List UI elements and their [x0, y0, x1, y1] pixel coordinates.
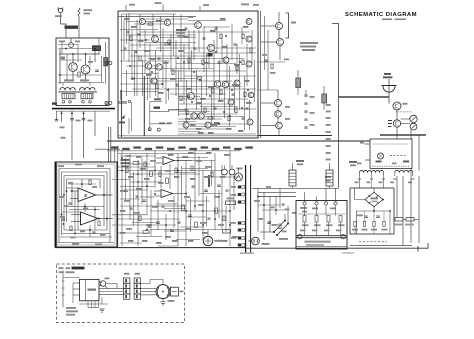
wire tuner rail — [59, 53, 100, 55]
wire main board horizontal 12 — [146, 42, 196, 44]
resistor R25 — [166, 178, 169, 184]
label servo value 7 — [205, 166, 211, 168]
label servo value 15 — [126, 228, 132, 230]
wire main board horizontal 35 — [118, 101, 127, 103]
indicator lamp D1 — [410, 115, 417, 122]
wire main board vertical 18 — [157, 72, 159, 100]
connector pin pair 7 — [238, 244, 241, 247]
diode D3 — [122, 116, 126, 120]
label value 28 — [244, 80, 250, 82]
wire servo top loop 3 — [64, 176, 104, 227]
wire tuner horizontals — [58, 44, 78, 46]
tuner board outline — [56, 38, 109, 106]
label output pair — [284, 59, 289, 61]
junction node 4 — [167, 89, 169, 91]
motor board dashed outline — [57, 264, 185, 323]
label value 9 — [210, 30, 216, 32]
wire main board horizontal 3 — [146, 18, 188, 20]
wire servo area vertical 6 — [160, 166, 162, 188]
label value 17 — [214, 122, 220, 124]
junction servo tie 3 — [154, 193, 156, 195]
wire main board vertical 14 — [147, 76, 149, 100]
wire main board vertical 30 — [188, 30, 190, 70]
wire main board horizontal 2 — [118, 16, 196, 18]
capacitor C21 — [246, 108, 249, 109]
label value 11 — [232, 84, 238, 86]
transistor Q23b — [246, 36, 252, 42]
capacitor C23 — [204, 190, 208, 191]
transistor Q18 — [191, 113, 197, 119]
wire servo inner mesh — [68, 183, 96, 185]
pin label column — [326, 104, 331, 106]
wire Q29 link — [106, 284, 117, 289]
wire servo area horizontal 17 — [112, 224, 176, 226]
wire main board horizontal 41 — [200, 116, 244, 118]
label value 33 — [226, 128, 232, 130]
label F1 rating — [84, 9, 93, 11]
junction servo tie 12 — [221, 170, 223, 172]
label servo 2 — [60, 196, 65, 198]
wire switch links — [284, 214, 286, 221]
bridge rectifier BR1 — [365, 192, 383, 207]
label motor board text — [66, 307, 76, 309]
wire bottom faint marks — [240, 252, 254, 254]
capacitor C15 — [215, 28, 218, 29]
resistor R22b — [70, 226, 72, 231]
wire servo mid verticals — [74, 191, 76, 234]
transistor Q24 output — [276, 23, 283, 30]
resistor R19 — [208, 117, 213, 119]
transistor Q10 — [156, 64, 162, 70]
label value 6 — [178, 50, 184, 52]
wire servo area link 2 — [128, 163, 150, 165]
wire bus riser B — [250, 165, 252, 253]
wire servo area vertical 5 — [154, 150, 156, 188]
resistor R36 — [271, 64, 273, 69]
resistor R5 — [148, 23, 153, 25]
op-amp IC1a — [78, 188, 96, 202]
capacitor C44 — [192, 186, 195, 187]
resistor R33 — [339, 216, 342, 223]
wire servo bottom loop — [64, 229, 107, 231]
wire servo area link 16 — [120, 242, 142, 244]
wire main board vertical 22 — [168, 88, 170, 100]
wire main board vertical 8 — [131, 30, 133, 80]
bracket pin header — [286, 13, 289, 38]
component hatch right — [104, 58, 108, 67]
label servo value 9 — [134, 212, 140, 214]
power rail bus — [52, 108, 115, 110]
label T2 upper left — [296, 160, 304, 162]
resistor R7 — [165, 43, 170, 45]
label power board bottom — [305, 241, 331, 243]
label servo value 18 — [185, 228, 191, 230]
fuse F1 — [78, 8, 80, 24]
power switch S1 — [274, 221, 288, 236]
label servo value 14 — [214, 196, 220, 198]
wire servo area vertical 11 — [202, 170, 204, 240]
wire servo area link 13 — [164, 230, 186, 232]
junction servo tie 11 — [202, 224, 204, 226]
wire main board vertical 29 — [186, 80, 188, 130]
junction node 16 — [177, 57, 179, 59]
wire main board vertical 17 — [155, 50, 157, 96]
resistor R32 — [327, 216, 330, 223]
wire servo area vertical 14 — [229, 150, 231, 246]
label servo note 7 — [204, 176, 210, 178]
wire main board horizontal 7 — [120, 29, 158, 31]
wire servo area link 4 — [176, 172, 196, 174]
control module outline — [370, 139, 412, 169]
wire main board vertical 25 — [175, 40, 177, 96]
capacitor C19 — [194, 48, 197, 49]
motor M3 — [156, 285, 170, 299]
module dotted bottom — [372, 165, 410, 167]
junction servo tie 9 — [165, 224, 167, 226]
wire main board horizontal 25 — [184, 75, 256, 77]
wire main board vertical 54 — [249, 100, 251, 130]
resistor hatch base — [388, 121, 392, 127]
junction node 14 — [145, 39, 147, 41]
wire output coupling 1 — [261, 25, 276, 27]
capacitor C24 — [217, 185, 221, 186]
wire rectifier bottom dash — [359, 241, 387, 243]
resistor R23 — [133, 162, 139, 165]
wire opamp feedback lower — [67, 206, 104, 208]
wire top link — [188, 20, 226, 22]
capacitor C4 — [70, 119, 73, 120]
wire main board horizontal 42 — [178, 118, 222, 120]
junction servo node 9 — [146, 185, 148, 187]
wire rectifier lower verticals — [354, 226, 356, 234]
junction servo tie 10 — [185, 210, 187, 212]
resistor R26 — [242, 34, 244, 39]
pilot lamp PL1 — [378, 153, 384, 159]
junction servo node 8 — [229, 224, 231, 226]
servo board outline — [55, 162, 117, 247]
wire servo area vertical 4 — [146, 153, 148, 215]
wire servo area horizontal 12 — [186, 200, 210, 202]
transistor Q23a — [246, 19, 252, 25]
label value 34 — [156, 20, 162, 22]
wire servo area horizontal 16 — [118, 218, 180, 220]
terminal TL1 — [298, 235, 302, 239]
connector pin pair 2 — [238, 193, 241, 196]
wire lower-left link 3 — [150, 123, 170, 125]
wire main board horizontal 46 — [178, 128, 230, 130]
wire servo area link 6 — [200, 193, 222, 195]
coil L1 — [69, 43, 74, 48]
junction servo node 3 — [154, 170, 156, 172]
junction rail nodes — [61, 113, 63, 115]
resistor R11 — [197, 77, 202, 79]
capacitor C25 — [267, 222, 271, 223]
transformer T2 secondary coil 1 — [360, 170, 384, 172]
secondary tap ticks — [358, 178, 414, 180]
label servo note 23 — [206, 152, 212, 154]
junction servo tie 6 — [214, 218, 216, 220]
wire servo area drop 11 — [206, 196, 208, 226]
capacitor C17 — [68, 203, 71, 204]
wire servo area horizontal 4 — [118, 166, 156, 168]
wire servo area link 14 — [136, 236, 162, 238]
wire servo area drop 3 — [141, 158, 143, 204]
label value 8 — [204, 62, 210, 64]
wire main board horizontal 21 — [126, 65, 160, 67]
wire main board horizontal 27 — [150, 80, 232, 82]
resistor R25 — [202, 60, 204, 65]
wire main board vertical 41 — [216, 26, 218, 52]
label lower-left 1 — [154, 98, 161, 100]
wire power board inner bottom — [296, 245, 347, 247]
capacitor C26 — [364, 216, 368, 217]
resistor R21 — [220, 90, 222, 95]
label value 4 — [146, 74, 152, 76]
label value 14 — [185, 118, 191, 120]
junction node 11 — [223, 111, 225, 113]
label switch — [279, 238, 288, 240]
wire main board vertical 7 — [128, 118, 130, 134]
wire bridge stubs — [373, 188, 375, 192]
wire main board vertical 31 — [191, 50, 193, 92]
label T2 upper right — [349, 161, 357, 163]
indicator lamp D2 — [410, 123, 417, 130]
label power board — [300, 207, 307, 209]
wire servo area horizontal 19 — [118, 232, 150, 234]
wire main board horizontal 23 — [170, 70, 246, 72]
transformer T1 primary coils — [60, 88, 95, 91]
wire servo area link 12 — [180, 226, 204, 228]
IF transformer IFT1 — [93, 46, 101, 51]
wire servo area horizontal 1 — [118, 153, 210, 155]
wire servo area drop 8 — [181, 166, 183, 210]
transistor Q23 driver — [393, 102, 401, 110]
wire main board horizontal 10 — [160, 37, 196, 39]
label value 35 — [188, 16, 194, 18]
transistor Q26 output — [275, 100, 282, 107]
transistor Q27 output — [275, 111, 282, 118]
wire rectifier inner — [356, 210, 390, 212]
wire servo area link 15 — [176, 239, 200, 241]
speaker SP1 — [382, 86, 397, 93]
label value 5 — [163, 62, 169, 64]
wire main board vertical 21 — [165, 60, 167, 104]
label servo note 5 — [174, 176, 180, 178]
wire to speaker net — [332, 24, 339, 189]
wire servo area drop 6 — [165, 214, 167, 240]
transformer T1 secondary winding left — [62, 94, 75, 99]
pad node P3 — [148, 128, 151, 131]
wire servo area link 1 — [176, 157, 208, 159]
wire main board vertical 24 — [173, 14, 175, 56]
AC outlet J1 — [252, 237, 260, 245]
transistor Q13 — [222, 81, 228, 87]
wire main board vertical 11 — [139, 14, 141, 48]
resistor R28b — [279, 224, 281, 229]
wire servo area horizontal 7 — [208, 176, 240, 178]
wire main board horizontal 30 — [132, 88, 256, 90]
junction node 19 — [225, 35, 227, 37]
resistor R6 — [156, 84, 158, 89]
wire main board vertical 55 — [251, 30, 253, 64]
wire servo area drop 10 — [198, 156, 200, 196]
wire bold riser — [208, 175, 210, 187]
label servo value 4 — [165, 170, 171, 172]
terminal TL2 — [341, 235, 345, 239]
stub top 3 — [199, 6, 201, 11]
label value 29 — [200, 98, 206, 100]
wire lower-left bold riser — [143, 76, 145, 136]
wire IC3 ground leg — [101, 298, 103, 305]
label servo note 11 — [156, 242, 162, 244]
servo board inner outline — [57, 164, 115, 245]
IC3 input pins — [73, 282, 80, 284]
label servo note 15 — [222, 240, 228, 242]
power board top pins — [303, 202, 306, 205]
wire main board vertical 43 — [221, 34, 223, 64]
label secondary top — [376, 161, 382, 163]
resistor R35 — [406, 218, 414, 221]
rectifier board outline — [350, 188, 394, 234]
wire main board horizontal 32 — [170, 93, 226, 95]
transistor Q24 driver — [393, 120, 400, 127]
wire main board horizontal 48 — [178, 133, 256, 135]
capacitor C19 — [142, 200, 146, 201]
wire servo area link 10 — [186, 216, 206, 218]
resistor R15 — [228, 116, 230, 121]
label servo value 13 — [198, 204, 204, 206]
transistor Q5 — [152, 36, 159, 43]
resistor R23 — [168, 40, 170, 45]
junction node 12 — [191, 101, 193, 103]
wire main board horizontal 44 — [178, 123, 248, 125]
transformer T2 winding 2 — [326, 170, 333, 186]
wire left column drop 1 — [61, 111, 63, 122]
transistor Q23d — [247, 119, 253, 125]
junction primary nodes — [263, 204, 265, 206]
wire main board horizontal 16 — [184, 52, 256, 54]
label TM-152 — [65, 26, 79, 29]
capacitor C29 — [62, 219, 65, 220]
label value 22 — [170, 78, 176, 80]
resistor R9 — [180, 96, 182, 101]
label servo value 19 — [200, 222, 206, 224]
module left ticks — [365, 143, 371, 145]
resistor R14 — [220, 34, 222, 39]
wire main board vertical 53 — [246, 44, 248, 86]
wire servo area vertical 13 — [221, 165, 223, 229]
wire main board vertical 23 — [170, 34, 172, 70]
wire servo area drop 12 — [211, 160, 213, 186]
wire main board horizontal 9 — [126, 34, 196, 36]
label value 7 — [186, 88, 192, 90]
label tuner values — [64, 79, 74, 81]
transistor Q29 — [100, 281, 106, 287]
wire servo area drop 15 — [233, 176, 235, 210]
resistor R27 — [195, 222, 198, 228]
label servo note 16 — [232, 236, 238, 238]
wire servo area drop 13 — [218, 190, 220, 218]
connector pin pair 4 — [238, 222, 241, 225]
label servo note 10 — [142, 240, 148, 242]
wire outlet bottom rail — [246, 243, 428, 248]
oscillator coil pair — [222, 169, 228, 175]
junction servo node 1 — [121, 170, 123, 172]
wire power pin drops — [304, 205, 306, 216]
wire main board bottom inner — [118, 135, 258, 137]
resistor R18 — [250, 48, 252, 53]
label value 27 — [234, 64, 240, 66]
motor M2 terminal — [235, 173, 243, 181]
junction servo tie 5 — [194, 205, 196, 207]
connector pad CN-A — [105, 61, 108, 64]
capacitor C41 — [148, 226, 151, 227]
op-amp IC1b — [81, 212, 99, 225]
label servo note 8 — [220, 176, 226, 178]
wire servo top loop 1 — [59, 169, 110, 243]
label value 21 — [158, 92, 164, 94]
junction servo node 7 — [214, 210, 216, 212]
wire main board horizontal 20 — [176, 63, 236, 65]
label servo note 22 — [188, 152, 194, 154]
wire servo area drop 14 — [225, 206, 227, 232]
resistor R47 — [139, 216, 141, 221]
motor M3 brush cap — [170, 287, 178, 296]
wire servo area drop 5 — [157, 200, 159, 230]
wire mains rail 1 — [252, 187, 339, 189]
capacitor C25b — [282, 204, 285, 205]
label servo note 9 — [128, 240, 134, 242]
transformer T2 secondary coil 2 — [395, 170, 413, 172]
wire main board vertical 37 — [206, 54, 208, 96]
capacitor C2 — [95, 70, 99, 71]
capacitor C6 — [124, 48, 127, 49]
transistor Q6 — [195, 22, 202, 29]
junction node 9 — [239, 61, 241, 63]
label servo value 2 — [140, 168, 146, 170]
transistor Q21 — [205, 122, 211, 128]
wire servo area horizontal 10 — [120, 186, 154, 188]
label power mid row — [300, 230, 306, 232]
wire mains drops — [257, 188, 259, 232]
op-amp IC2a — [163, 157, 174, 165]
junction servo node 6 — [202, 210, 204, 212]
wire left column drop 3 — [83, 111, 85, 158]
label motor board title — [72, 267, 85, 270]
junction servo node 5 — [185, 193, 187, 195]
wire servo bottom rail — [58, 242, 114, 244]
wire main board horizontal 36 — [178, 103, 230, 105]
capacitor C8 — [232, 94, 235, 95]
junction node 5 — [183, 61, 185, 63]
note text block — [300, 42, 318, 44]
power board outline — [296, 201, 347, 250]
connector pin pair 5 — [238, 229, 241, 232]
label servo note 12 — [172, 240, 178, 242]
label servo value 10 — [152, 206, 158, 208]
wire mains rail 2 — [258, 191, 296, 193]
wire output vertical 1 — [264, 16, 266, 70]
rectifier bottom tick — [417, 246, 419, 252]
wire power resistor bottoms — [304, 222, 306, 236]
wire main board vertical 12 — [142, 60, 144, 96]
capacitor C22 — [188, 215, 192, 216]
capacitor C20 — [214, 108, 217, 109]
resistor R29 — [98, 221, 100, 226]
wire double drop to servo board — [108, 127, 110, 162]
label servo value 11 — [168, 200, 174, 202]
wire servo area vertical 10 — [194, 150, 196, 210]
